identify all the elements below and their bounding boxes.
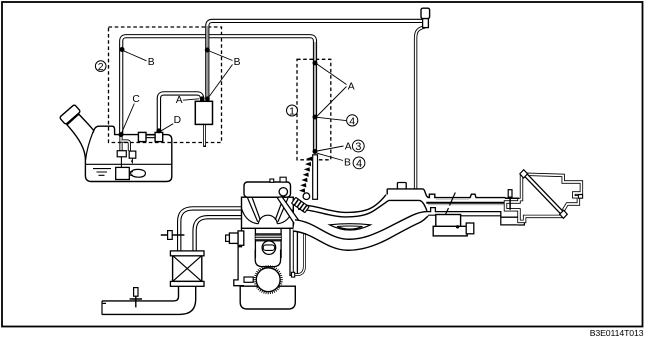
block lower left outline — [234, 228, 244, 285]
svg-text:A: A — [176, 95, 183, 106]
fuel tank — [59, 104, 171, 181]
dashed box 2 — [109, 27, 222, 143]
small rect left of pulley — [244, 277, 253, 282]
air duct from box to front — [102, 286, 196, 315]
in-tank elbow pipe — [122, 141, 129, 151]
tank top fitting (two-way check valve) — [138, 132, 162, 141]
piston rings — [255, 234, 281, 241]
hose from connector down — [416, 27, 425, 190]
hose clamp on duct — [130, 291, 142, 308]
duct top bump — [397, 183, 406, 189]
canister ports — [201, 97, 210, 101]
fresh air hose white bar — [313, 155, 318, 200]
svg-text:1: 1 — [289, 105, 295, 117]
cylinder jacket — [255, 250, 280, 267]
svg-text:B: B — [344, 157, 351, 168]
resonator box — [436, 215, 461, 228]
hose A (canister to tank fitting D) — [159, 93, 202, 131]
in-tank pipe from C — [117, 135, 136, 168]
duct end bracket at air cleaner — [518, 216, 525, 225]
svg-text:B3E0114T013: B3E0114T013 — [590, 328, 644, 338]
intake bracket diagonal — [277, 197, 300, 226]
oil filler neck — [280, 177, 286, 182]
svg-text:D: D — [174, 115, 181, 126]
filter box with X — [170, 251, 204, 286]
hose clamp at air cleaner — [505, 197, 519, 210]
engine: pipe to intercooler lower — [195, 217, 243, 252]
hose clamp upper — [161, 234, 185, 236]
corrugated hose chevrons — [299, 157, 312, 193]
svg-text:A: A — [348, 81, 355, 92]
crank pulley — [254, 265, 283, 294]
dipstick line — [446, 193, 456, 215]
svg-text:4: 4 — [349, 115, 355, 127]
circled 3 — [352, 140, 364, 153]
wrist pin — [262, 241, 276, 255]
circled 4 low — [353, 157, 365, 170]
lower resonator duct — [427, 208, 518, 225]
canister drain pipe — [203, 124, 206, 147]
canister — [195, 101, 212, 124]
filler cap — [59, 104, 80, 124]
circled 1 — [287, 105, 298, 117]
oil cap circle — [279, 188, 287, 196]
air cleaner — [506, 170, 583, 222]
circled 2 — [95, 61, 106, 73]
connector (top right) — [421, 8, 430, 18]
cover cap small — [270, 179, 274, 182]
hose C (tank to evap line) — [121, 36, 315, 152]
right bracket — [290, 228, 297, 275]
hose B (canister to connector) — [207, 21, 422, 98]
upper wavy duct — [298, 194, 389, 217]
plenum dome — [258, 215, 277, 224]
intake trumpets — [248, 198, 288, 222]
dashed box 1 — [297, 59, 331, 160]
circled 4 mid — [347, 115, 358, 128]
side tab — [578, 195, 582, 199]
engine assembly — [226, 177, 298, 309]
svg-text:C: C — [132, 94, 140, 105]
engine: pipe to intercooler upper — [179, 208, 243, 252]
svg-text:4: 4 — [356, 158, 362, 170]
svg-text:B: B — [148, 57, 155, 68]
junction dots — [119, 47, 318, 154]
duct lens detail — [330, 224, 371, 230]
lower wavy duct — [293, 212, 428, 251]
cylinder walls — [255, 228, 281, 258]
engine mount — [238, 231, 244, 245]
labels — [132, 57, 354, 168]
oil pan — [240, 286, 295, 309]
svg-text:3: 3 — [355, 141, 361, 153]
fuel pump unit — [116, 167, 130, 179]
engine block upper — [242, 197, 294, 228]
fuel sender — [131, 169, 146, 177]
drain tube right of engine — [292, 231, 305, 277]
filter element diagonal — [524, 174, 563, 214]
leader lines — [122, 51, 347, 161]
ribbed fitting — [292, 197, 310, 212]
valve cover — [244, 182, 291, 197]
svg-text:2: 2 — [98, 61, 104, 73]
svg-text:B: B — [234, 57, 241, 68]
fuel level lines — [85, 163, 171, 165]
svg-text:A: A — [345, 141, 352, 152]
upper air outlet duct — [388, 190, 424, 200]
